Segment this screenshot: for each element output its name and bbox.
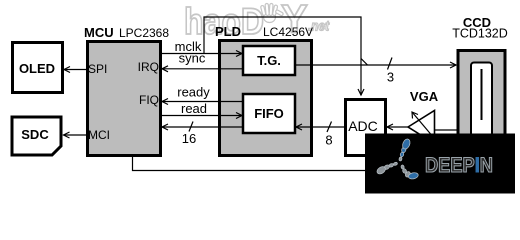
wire MCU bottom bus xyxy=(133,155,367,171)
svg-text:TCD132D: TCD132D xyxy=(452,27,508,41)
watermark haoDIY.net xyxy=(184,0,330,42)
wire data16: FIFO to MCU xyxy=(162,122,243,132)
wire mclk branch up xyxy=(204,17,364,95)
svg-text:PLD: PLD xyxy=(215,24,241,39)
wire SPI: MCU to OLED xyxy=(64,67,86,73)
DEEPIN logo text xyxy=(425,154,493,177)
wire TG to CCD (3) xyxy=(296,58,456,70)
svg-text:MCI: MCI xyxy=(88,128,110,142)
svg-text:SDC: SDC xyxy=(21,127,49,142)
SDC box xyxy=(12,117,61,155)
svg-text:LC4256V: LC4256V xyxy=(263,25,313,39)
VGA amplifier xyxy=(408,111,435,144)
svg-text:VGA: VGA xyxy=(410,89,439,104)
VGA gain arrow xyxy=(412,112,434,138)
svg-text:FIQ: FIQ xyxy=(139,93,159,107)
CCD block xyxy=(452,15,508,141)
svg-text:T.G.: T.G. xyxy=(257,53,281,68)
svg-text:OLED: OLED xyxy=(19,61,55,76)
DEEPIN logo box xyxy=(365,134,515,194)
wire hop at crossing xyxy=(361,59,368,66)
PLD U2 block xyxy=(215,24,313,156)
svg-text:read: read xyxy=(181,101,207,116)
FIFO box xyxy=(243,94,295,133)
svg-text:FIFO: FIFO xyxy=(254,106,284,121)
svg-text:sync: sync xyxy=(179,51,206,66)
svg-text:ADC: ADC xyxy=(348,118,378,134)
svg-text:IRQ: IRQ xyxy=(138,60,159,74)
svg-text:3: 3 xyxy=(387,70,394,85)
wire CCD to VGA xyxy=(434,129,458,131)
T.G. box xyxy=(243,46,295,75)
svg-text:SPI: SPI xyxy=(88,62,107,76)
wire ready: FIFO to MCU FIQ xyxy=(162,99,243,105)
wire VGA to ADC xyxy=(387,124,408,130)
ADC box xyxy=(346,100,386,156)
svg-text:ready: ready xyxy=(177,85,210,100)
CCD sensor window xyxy=(471,63,492,138)
MCU U1 block xyxy=(84,25,169,156)
wire read: MCU to FIFO xyxy=(161,113,242,119)
svg-text:LPC2368: LPC2368 xyxy=(119,26,169,40)
svg-text:DEEPIN: DEEPIN xyxy=(425,154,493,177)
svg-text:8: 8 xyxy=(325,133,332,148)
wire sync: T.G. to MCU IRQ xyxy=(162,66,243,72)
wire ADC to FIFO (8) xyxy=(296,122,345,133)
svg-text:16: 16 xyxy=(182,131,196,146)
wire mclk: MCU to T.G. xyxy=(161,51,242,57)
svg-text:MCU: MCU xyxy=(84,25,114,40)
wire MCI: MCU to SDC xyxy=(64,132,87,138)
OLED box xyxy=(13,43,63,93)
DEEPIN logo swirl xyxy=(376,138,419,180)
